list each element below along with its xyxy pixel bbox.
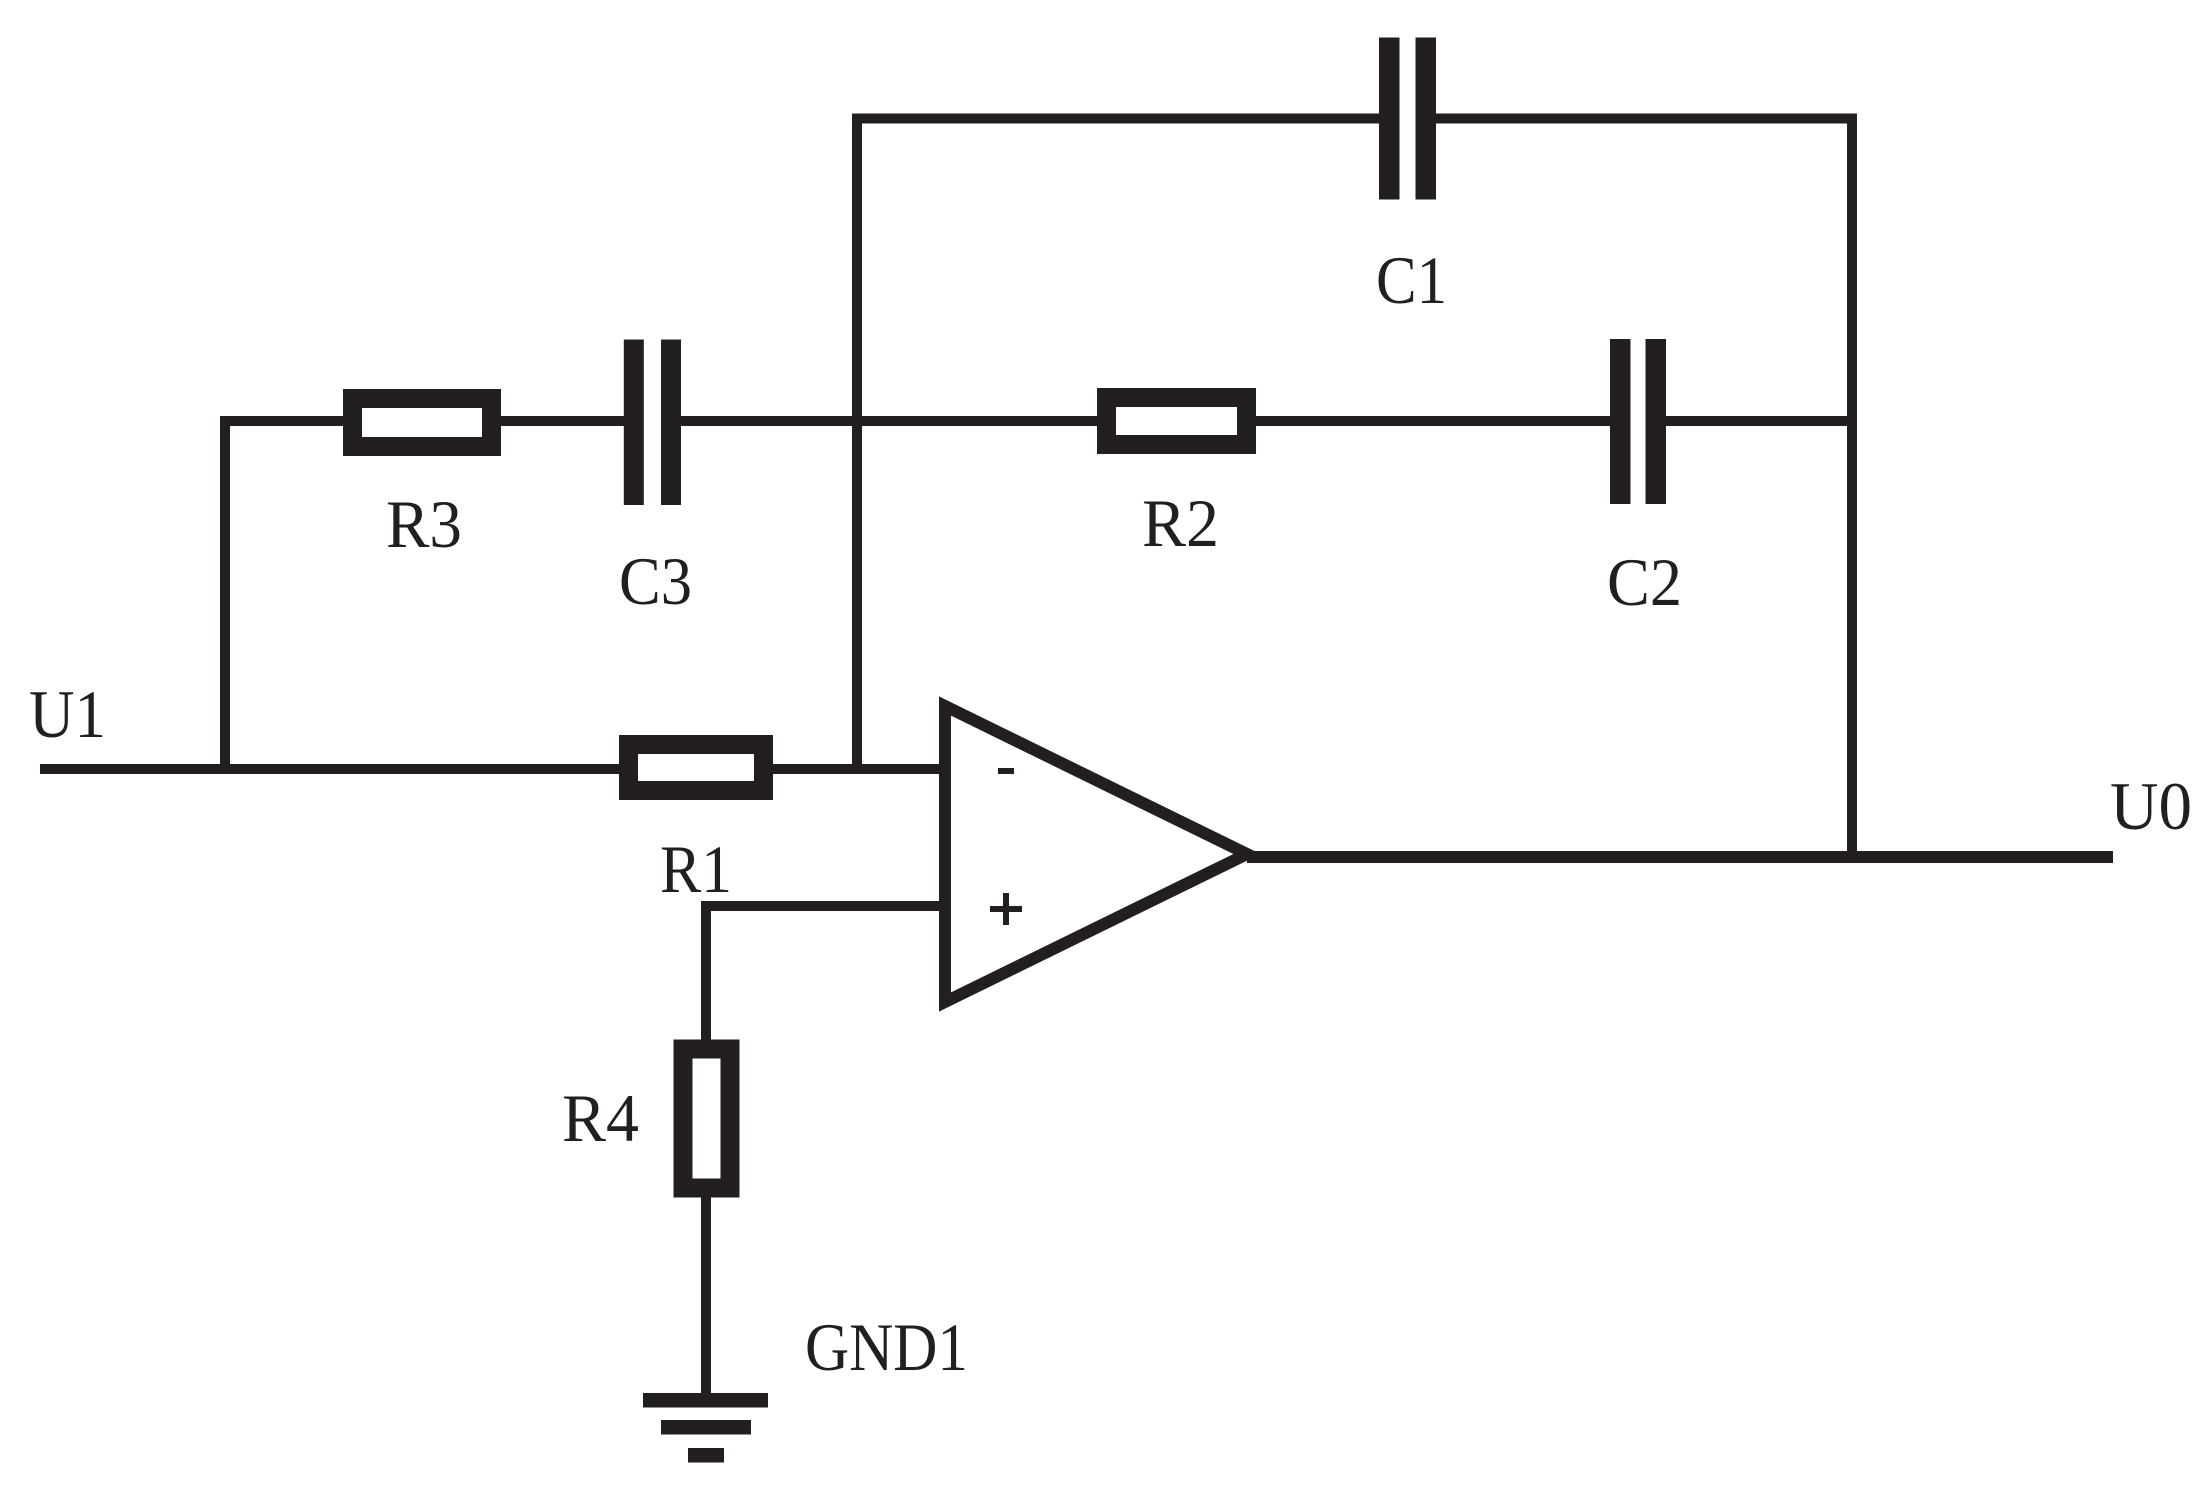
ground GND1 symbol: [643, 1393, 768, 1463]
svg-text:U1: U1: [29, 676, 106, 752]
svg-text:R3: R3: [386, 486, 462, 562]
capacitor C3: [624, 340, 681, 506]
wire R1 to op-amp inverting input: [770, 764, 945, 774]
wire left stub to R3: [220, 416, 347, 426]
wire R3 to C3: [498, 416, 626, 426]
wire left vertical from R3 line down to input: [220, 416, 230, 774]
wire output op-amp to U0: [1247, 851, 2113, 863]
resistor R2: [1107, 398, 1247, 445]
svg-text:GND1: GND1: [805, 1309, 968, 1385]
svg-text:R1: R1: [660, 831, 732, 907]
op-amp U1 triangle: [945, 706, 1247, 1002]
svg-text:C3: C3: [619, 543, 692, 619]
capacitor C2: [1610, 339, 1666, 504]
wire R2 to C2: [1253, 416, 1613, 426]
wire top feedback left segment: [852, 114, 1382, 124]
svg-text:R4: R4: [562, 1080, 639, 1156]
svg-text:U0: U0: [2110, 768, 2192, 844]
resistor R3: [353, 399, 492, 447]
wire non-inverting input vertical down to R4: [701, 901, 711, 1042]
svg-text:C1: C1: [1376, 242, 1447, 318]
wire C2 to right vertical: [1664, 416, 1852, 426]
wire right vertical (output feedback): [1847, 114, 1857, 863]
resistor R1: [629, 745, 764, 791]
wire input U1 to R1: [40, 764, 622, 774]
wire C3 to R2 (through node A junction): [679, 416, 1102, 426]
op-amp minus sign: [998, 768, 1014, 774]
wire non-inverting input horizontal: [701, 901, 945, 911]
resistor R4: [683, 1049, 730, 1188]
capacitor C1: [1379, 38, 1436, 200]
wire middle vertical (node A): [852, 114, 862, 775]
wire R4 to ground: [701, 1194, 711, 1400]
op-amp plus sign: [990, 893, 1022, 925]
wire top feedback right segment: [1434, 114, 1857, 124]
svg-text:R2: R2: [1142, 485, 1219, 561]
svg-text:C2: C2: [1607, 544, 1682, 620]
